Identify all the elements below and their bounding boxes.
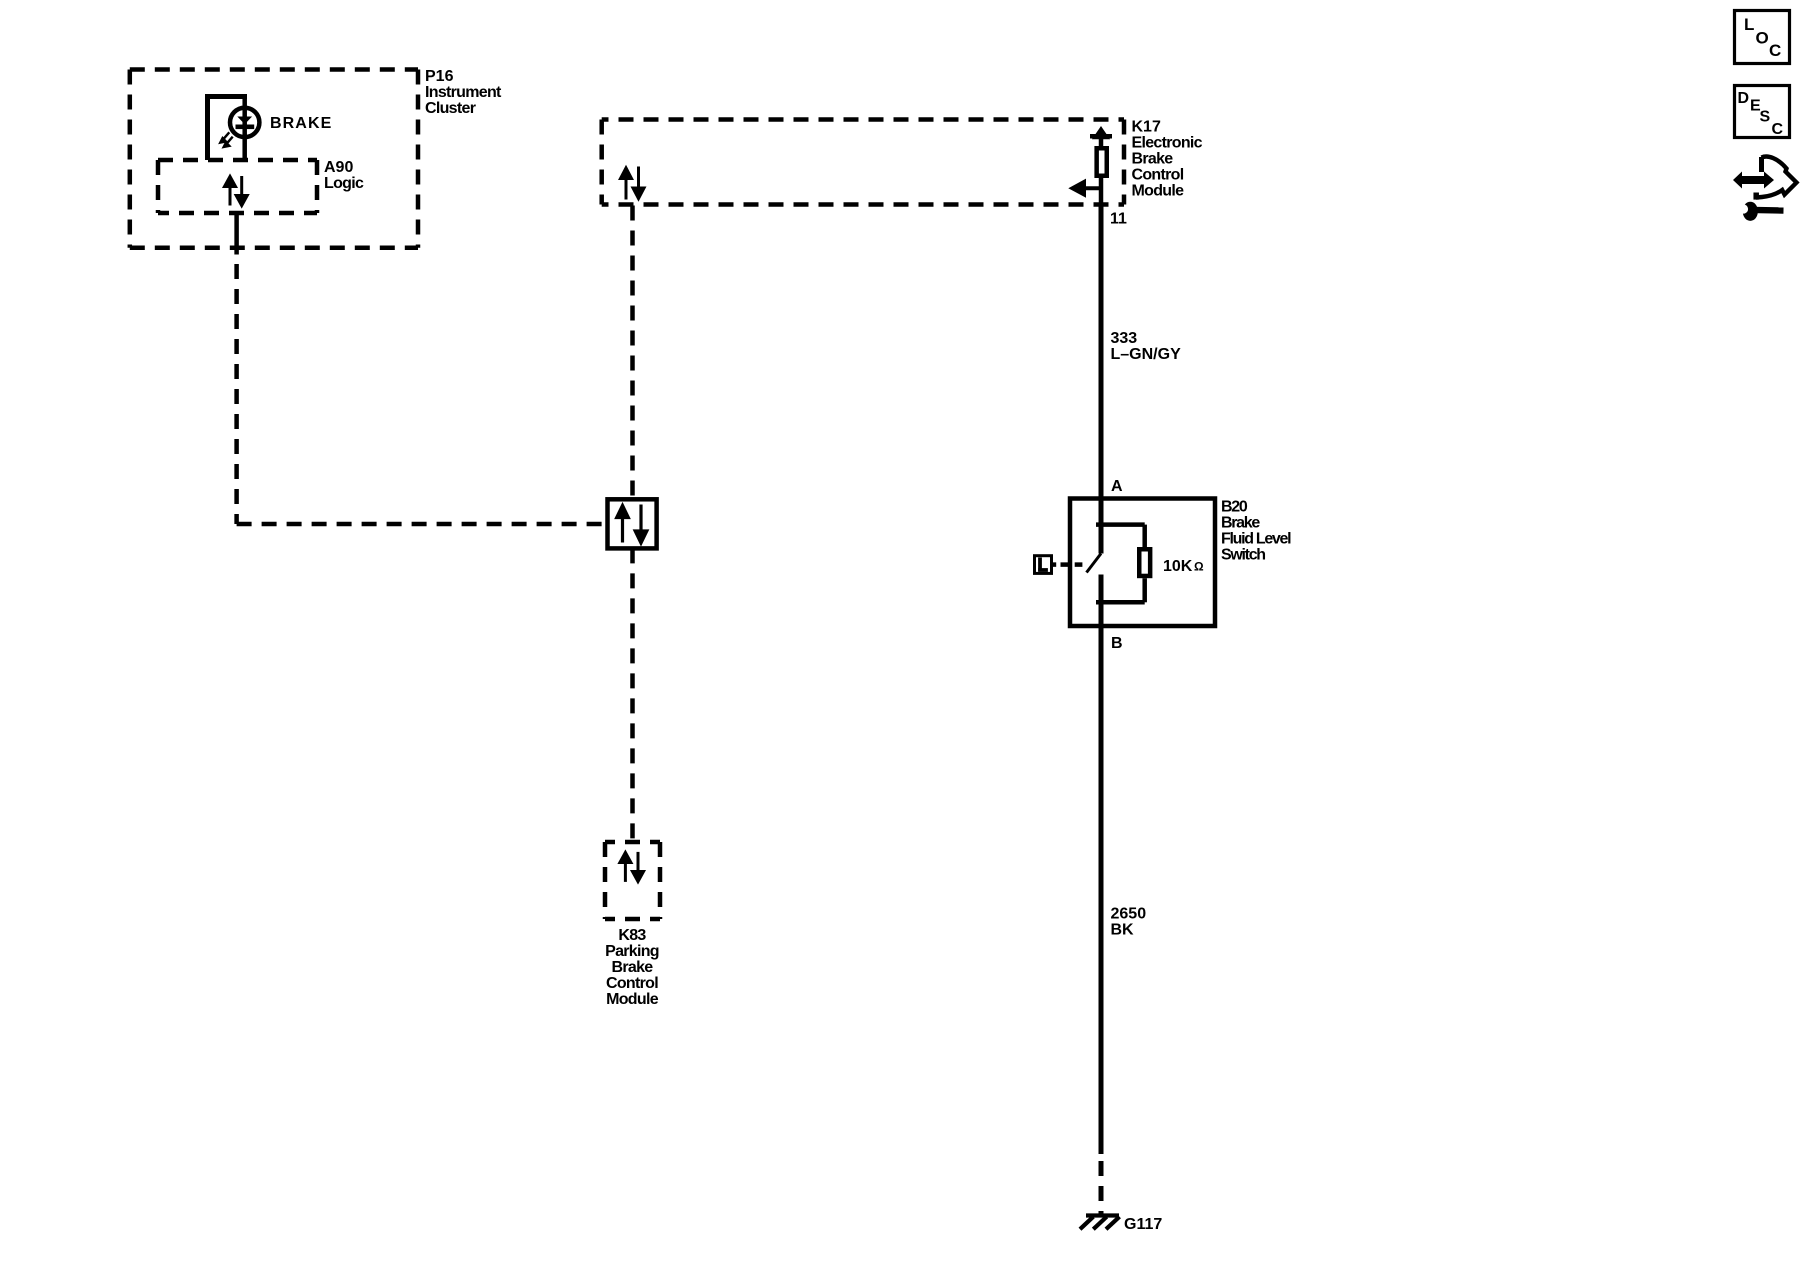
svg-text:10K: 10K [1163,558,1193,575]
K83 module dashed box [605,842,660,919]
resistor 10K [1139,549,1150,576]
lamp light ray 1 [220,132,229,142]
LOC icon box [1735,11,1790,64]
label K17 Electronic Brake Control Module [1132,119,1203,200]
ground G117 [1080,1216,1120,1230]
svg-text:G117: G117 [1124,1216,1162,1233]
svg-text:Control: Control [606,975,658,992]
label B20 Brake Fluid Level Switch [1221,499,1291,564]
svg-text:Switch: Switch [1221,547,1265,564]
instrument cluster P16 dashed box [130,70,418,248]
wire dashed down to corner [234,264,239,524]
label K83 Parking Brake Control Module [605,927,659,1008]
serial data connector box [608,499,657,548]
A90 down arrow [236,176,247,206]
A90 up arrow [225,177,236,206]
B20 switch blade [1087,554,1102,573]
B20 junction bottom [1096,600,1145,605]
lamp light ray 2 [224,137,233,147]
svg-text:B20: B20 [1221,499,1248,516]
B20 resistor branch top wire [1142,525,1147,547]
svg-text:D: D [1738,90,1750,107]
K17 module dashed box [602,120,1124,205]
svg-text:333: 333 [1111,330,1138,347]
related-info icon wrench [1739,202,1784,221]
wire 333 L-GN/GY [1099,205,1104,499]
connector L box [1035,556,1052,574]
svg-text:K17: K17 [1132,119,1161,136]
related-info icon double arrow [1733,172,1774,189]
K17 internal wire below resistor [1099,178,1104,205]
B20 resistor branch bottom wire [1142,578,1147,602]
svg-text:C: C [1769,41,1781,60]
lamp circle [230,108,259,137]
svg-text:A90: A90 [324,159,353,176]
K17 down arrow [633,167,644,199]
dashed wire from L connector to switch blade [1053,562,1082,567]
svg-text:L–GN/GY: L–GN/GY [1111,346,1182,363]
svg-text:L: L [1744,15,1754,34]
svg-text:A: A [1111,478,1123,495]
wire dashed K17 to connector box [630,205,635,500]
B20 upper contact wire [1099,499,1104,554]
svg-text:BRAKE: BRAKE [270,115,332,132]
svg-text:P16: P16 [425,68,454,85]
B20 junction top [1096,522,1145,527]
connector box down arrow [635,505,647,544]
wire A90 to corner (solid part) [234,214,239,255]
K83 down arrow [633,852,644,882]
label A90 Logic [324,159,364,192]
related-info icon outline arrow [1756,157,1797,200]
svg-text:Module: Module [606,991,659,1008]
svg-text:Module: Module [1132,183,1185,200]
K83 up arrow [620,853,631,882]
svg-text:Brake: Brake [612,959,654,976]
svg-text:O: O [1756,29,1769,48]
K17 internal resistor top bar with arrow [1090,130,1112,137]
lamp diode bar [236,125,255,130]
svg-text:Brake: Brake [1132,151,1174,168]
label 2650 BK [1111,906,1147,939]
svg-text:Ω: Ω [1194,560,1204,574]
svg-text:2650: 2650 [1111,906,1147,923]
wire 2650 BK [1099,626,1104,1154]
label 333 L-GN/GY [1111,330,1182,363]
svg-text:Fluid Level: Fluid Level [1221,531,1291,548]
wire dashed to ground [1099,1161,1104,1214]
B20 lower contact wire [1099,575,1104,627]
label P16 Instrument Cluster [425,68,502,117]
wire dashed corner to connector box [237,522,607,527]
brake fluid level switch B20 box [1070,499,1215,627]
svg-text:B: B [1111,635,1123,652]
indicator lamp frame [205,94,247,160]
logic A90 dashed box [158,160,317,213]
K17 up arrow [621,168,632,200]
svg-text:Control: Control [1132,167,1184,184]
K17 signal arrow pointing left [1073,182,1102,194]
svg-text:Electronic: Electronic [1132,135,1203,152]
wire dashed connector box to K83 [630,548,635,842]
connector box up arrow [617,506,629,543]
svg-text:Cluster: Cluster [425,100,476,117]
connector L letter [1038,558,1048,572]
svg-text:Instrument: Instrument [425,84,502,101]
svg-text:11: 11 [1110,211,1127,228]
K17 internal resistor [1099,136,1104,146]
svg-text:K83: K83 [618,927,646,944]
DESC icon box [1735,86,1790,138]
lamp diode triangle [237,117,252,125]
svg-text:Brake: Brake [1221,515,1260,532]
wire lamp vertical [242,97,247,161]
svg-text:Logic: Logic [324,175,364,192]
svg-text:BK: BK [1111,922,1135,939]
svg-text:Parking: Parking [605,943,659,960]
svg-text:C: C [1772,121,1784,138]
svg-text:S: S [1760,109,1771,126]
